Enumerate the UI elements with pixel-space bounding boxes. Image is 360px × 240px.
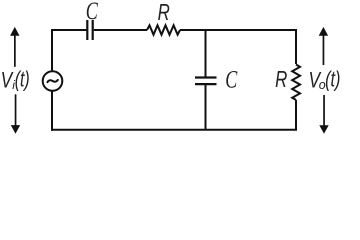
wire middle vertical lower — [205, 85, 207, 130]
wire left vertical lower — [51, 91, 53, 131]
resistor R1 — [147, 25, 180, 34]
wire right vertical upper — [295, 29, 297, 64]
AC source V1 — [43, 71, 63, 91]
wire top-left segment — [52, 29, 86, 31]
svg-text:C: C — [86, 0, 99, 25]
wire right vertical lower — [295, 100, 297, 130]
wire middle vertical upper — [205, 29, 207, 77]
resistor R2 — [292, 65, 300, 100]
node Vo label — [309, 67, 341, 93]
output arrow up — [319, 27, 328, 65]
capacitor C1 — [87, 20, 92, 40]
wire left vertical upper — [51, 29, 53, 71]
input arrow up — [10, 27, 19, 67]
node Vi label — [1, 67, 30, 93]
svg-text:R: R — [275, 66, 287, 92]
svg-text:R: R — [158, 0, 170, 25]
wire top-right segment — [180, 29, 296, 31]
svg-text:(t): (t) — [325, 67, 340, 92]
output arrow down — [319, 95, 328, 134]
svg-text:C: C — [225, 65, 238, 94]
wire bottom — [51, 129, 297, 131]
input arrow down — [11, 94, 20, 133]
AC source tilde — [47, 80, 57, 82]
wire top-mid segment — [94, 29, 147, 31]
capacitor C2 — [195, 78, 217, 85]
svg-text:(t): (t) — [15, 67, 30, 92]
